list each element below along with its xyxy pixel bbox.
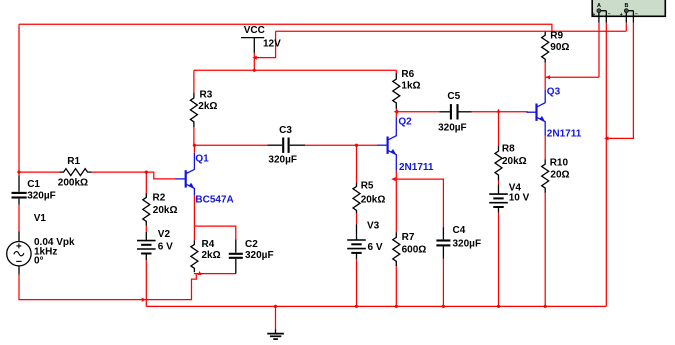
svg-text:320µF: 320µF xyxy=(268,155,297,166)
svg-text:320µF: 320µF xyxy=(27,191,56,202)
svg-text:A: A xyxy=(597,3,601,9)
svg-text:C3: C3 xyxy=(279,125,292,136)
svg-text:V1: V1 xyxy=(34,213,47,224)
svg-text:12V: 12V xyxy=(263,39,281,50)
svg-text:B: B xyxy=(625,3,629,9)
svg-text:V2: V2 xyxy=(158,229,171,240)
svg-text:R10: R10 xyxy=(550,158,569,169)
svg-text:C2: C2 xyxy=(245,239,258,250)
svg-text:C5: C5 xyxy=(447,91,460,102)
svg-text:20kΩ: 20kΩ xyxy=(153,205,178,216)
svg-text:20kΩ: 20kΩ xyxy=(502,156,527,167)
svg-text:2N1711: 2N1711 xyxy=(399,162,434,173)
svg-text:R7: R7 xyxy=(402,232,415,243)
svg-text:20Ω: 20Ω xyxy=(550,170,569,181)
svg-text:R2: R2 xyxy=(153,192,166,203)
svg-text:+: + xyxy=(620,12,623,18)
svg-text:Q3: Q3 xyxy=(547,87,561,98)
svg-text:V3: V3 xyxy=(367,221,380,232)
svg-text:2N1711: 2N1711 xyxy=(547,128,582,139)
svg-text:Q2: Q2 xyxy=(398,117,412,128)
svg-text:320µF: 320µF xyxy=(245,250,274,261)
svg-text:320µF: 320µF xyxy=(453,238,482,249)
svg-text:R1: R1 xyxy=(67,156,80,167)
svg-text:320µF: 320µF xyxy=(438,123,467,134)
svg-text:2kΩ: 2kΩ xyxy=(198,101,217,112)
svg-text:VCC: VCC xyxy=(244,25,265,36)
svg-text:+: + xyxy=(592,12,595,18)
svg-text:0°: 0° xyxy=(34,256,44,267)
svg-text:R5: R5 xyxy=(361,181,374,192)
svg-text:R6: R6 xyxy=(401,69,414,80)
svg-text:BC547A: BC547A xyxy=(195,194,233,205)
svg-text:R9: R9 xyxy=(550,30,563,41)
svg-text:6 V: 6 V xyxy=(368,242,383,253)
svg-text:1kΩ: 1kΩ xyxy=(401,81,420,92)
svg-text:C1: C1 xyxy=(27,179,40,190)
svg-text:–: – xyxy=(635,12,638,18)
svg-text:R8: R8 xyxy=(502,143,515,154)
svg-text:6 V: 6 V xyxy=(158,241,173,252)
svg-text:2kΩ: 2kΩ xyxy=(202,250,221,261)
svg-text:10 V: 10 V xyxy=(509,192,530,203)
svg-text:600Ω: 600Ω xyxy=(402,244,427,255)
svg-text:–: – xyxy=(608,12,611,18)
svg-text:200kΩ: 200kΩ xyxy=(58,178,88,189)
svg-text:C4: C4 xyxy=(453,225,466,236)
svg-text:R3: R3 xyxy=(200,89,213,100)
svg-text:90Ω: 90Ω xyxy=(550,42,569,53)
svg-text:Q1: Q1 xyxy=(195,153,209,164)
svg-text:20kΩ: 20kΩ xyxy=(361,195,386,206)
svg-text:R4: R4 xyxy=(202,239,215,250)
